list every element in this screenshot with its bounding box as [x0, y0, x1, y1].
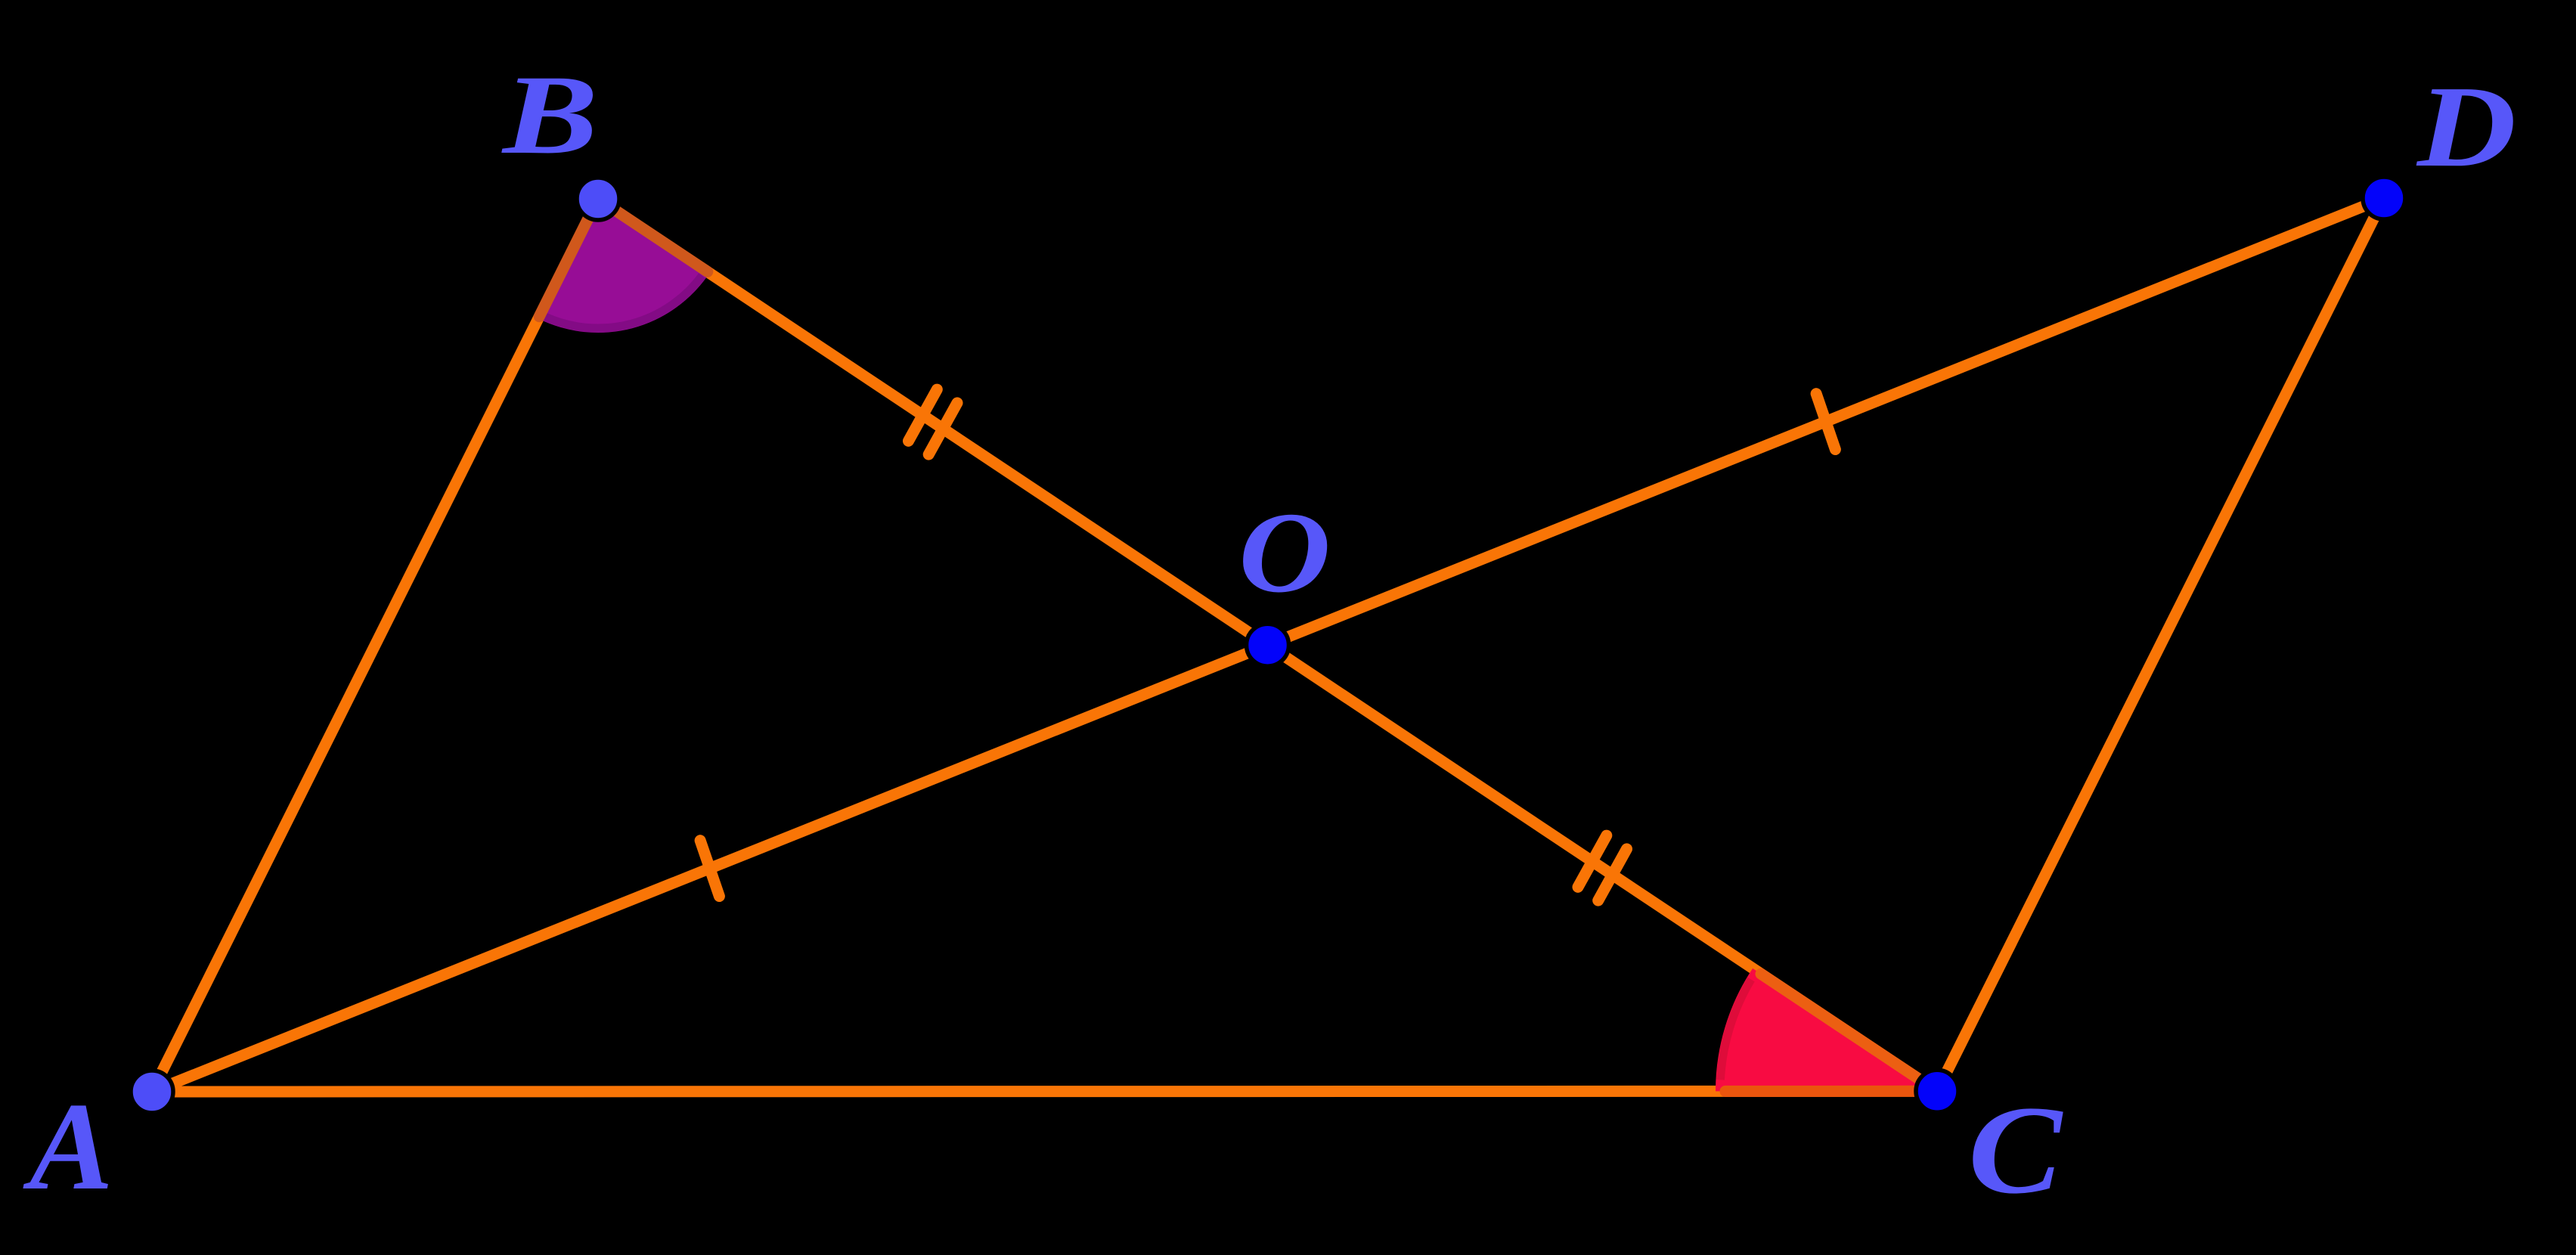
svg-text:O: O: [1238, 489, 1331, 617]
svg-text:B: B: [501, 52, 598, 178]
svg-text:D: D: [2416, 63, 2516, 191]
svg-text:A: A: [23, 1077, 113, 1216]
svg-text:C: C: [1968, 1080, 2063, 1220]
